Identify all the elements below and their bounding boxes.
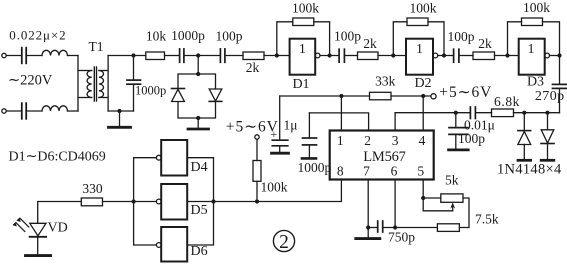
svg-text:4: 4	[419, 133, 426, 148]
wire pin1 stub	[340, 96, 342, 131]
node D1 output	[328, 53, 332, 57]
node diode D right top	[545, 111, 549, 115]
svg-text:100k: 100k	[523, 0, 550, 15]
symbol circled 2	[273, 230, 294, 251]
svg-text:1: 1	[337, 133, 344, 148]
node diode loop top	[196, 72, 200, 76]
resistor 7.5k	[437, 224, 459, 232]
wire 330 line	[38, 202, 134, 223]
wire 0.01u to 6.8k	[476, 112, 492, 114]
capacitor 100p series 2	[338, 49, 340, 62]
wire top input	[6, 55, 21, 57]
svg-text:100k: 100k	[261, 180, 288, 195]
wire bottom input	[6, 110, 21, 112]
ground diode left	[518, 159, 531, 162]
transformer T1 secondary	[99, 71, 104, 98]
capacitor 750p	[377, 221, 379, 232]
node D2 output	[442, 53, 446, 57]
wire 100p3 to 2k3	[460, 55, 474, 57]
wire pin5 stub	[422, 180, 424, 198]
ground diode right	[541, 159, 554, 162]
resistor 330	[81, 198, 102, 206]
resistor 2k 2	[358, 52, 379, 60]
wire cap to coil top	[27, 55, 42, 57]
wire D2 feedback right	[428, 22, 444, 56]
node pin6 bottom	[393, 225, 397, 229]
capacitor 1u electrolytic	[279, 96, 281, 140]
wire coil to T1 bottom	[68, 110, 79, 112]
diode 1N4148 left (pointing up)	[523, 113, 525, 131]
svg-text:33k: 33k	[375, 73, 396, 88]
terminal +5~6V left	[255, 135, 259, 139]
svg-text:2: 2	[364, 133, 371, 148]
resistor 10k	[146, 52, 165, 60]
wire secondary bottom	[108, 110, 133, 112]
wire D3 feedback right	[543, 22, 560, 56]
svg-text:100k: 100k	[410, 1, 437, 16]
wire pin8 to output line	[214, 180, 342, 202]
capacitor 1000p at pin2	[308, 113, 310, 138]
node T1 ground junction	[117, 109, 121, 113]
wire pin4 stub	[422, 96, 424, 131]
capacitor 1000p series	[179, 49, 181, 62]
svg-text:330: 330	[82, 181, 103, 196]
op-amp inverter D6	[161, 227, 187, 262]
potentiometer 5k	[441, 194, 463, 202]
svg-text:1μ: 1μ	[284, 118, 298, 133]
svg-text:7: 7	[363, 163, 370, 178]
op-amp inverter D2	[406, 39, 433, 75]
svg-text:2: 2	[279, 232, 289, 253]
wire 100p2 to 2k2	[345, 55, 358, 57]
wire wiper loop	[423, 198, 453, 211]
svg-text:+5∼6V: +5∼6V	[439, 84, 492, 101]
wire rail pin3 to 0.01u	[395, 112, 470, 114]
capacitor 100p shunt	[455, 113, 457, 128]
svg-text:5: 5	[417, 163, 424, 178]
inductor L bottom	[42, 106, 68, 111]
wire cap to coil bottom	[27, 110, 42, 112]
svg-text:5k: 5k	[445, 172, 459, 187]
wire 750p to 7.5k	[383, 227, 437, 229]
wire D4-D6 right tie	[187, 158, 213, 245]
wire pin6 stub	[394, 180, 396, 228]
svg-text:0.022μ×2: 0.022μ×2	[9, 27, 66, 42]
node left tie	[132, 199, 136, 203]
LED VD	[30, 223, 46, 236]
resistor 100k vertical	[256, 139, 258, 160]
resistor 6.8k	[492, 109, 514, 117]
svg-text:2k: 2k	[478, 36, 492, 51]
wire D3 out	[550, 55, 560, 57]
node right tie	[211, 199, 215, 203]
capacitor 100p series 3	[453, 49, 455, 62]
svg-text:270p: 270p	[535, 89, 565, 104]
op-amp inverter D5	[161, 184, 187, 220]
svg-text:D1∼D6:CD4069: D1∼D6:CD4069	[9, 150, 106, 165]
diode 1N4148 right (pointing down)	[547, 113, 549, 130]
capacitor C 0.022u bottom	[21, 103, 23, 119]
node diode D left top	[522, 111, 526, 115]
node 100k bottom	[255, 199, 259, 203]
node pin7 bottom	[366, 225, 370, 229]
resistor 100k D1	[293, 18, 314, 26]
capacitor 0.01u series	[469, 107, 471, 119]
svg-text:D2: D2	[414, 76, 431, 91]
svg-text:100p: 100p	[448, 29, 475, 44]
wire pin5 to pot	[423, 197, 441, 199]
svg-text:D6: D6	[191, 244, 208, 259]
resistor 100k D2	[407, 18, 428, 26]
node D1 input	[275, 53, 279, 57]
wire D1 feedback left	[277, 22, 293, 56]
op-amp inverter D3	[519, 39, 545, 75]
capacitor 1000p shunt at T1	[133, 56, 135, 80]
node D2 input	[391, 53, 395, 57]
wire D1 out	[320, 55, 339, 57]
wire secondary top to node	[108, 55, 146, 57]
wire right rail	[514, 112, 560, 114]
svg-text:750p: 750p	[388, 230, 415, 245]
node D3 output	[557, 53, 561, 57]
svg-text:3: 3	[392, 133, 399, 148]
svg-text:D4: D4	[191, 160, 208, 175]
svg-text:1000p: 1000p	[135, 84, 166, 98]
wire diode loop	[178, 74, 216, 118]
resistor 2k 1	[243, 52, 264, 60]
svg-text:1: 1	[299, 42, 306, 57]
wire 1000p to 100p	[185, 55, 220, 57]
node pin5	[421, 196, 425, 200]
wire pin3 stub	[394, 113, 396, 131]
wire pin7 stub	[367, 180, 369, 228]
terminal input bottom	[2, 109, 6, 113]
capacitor 270p	[559, 56, 561, 85]
LED arrows	[16, 218, 29, 231]
svg-text:10k: 10k	[146, 29, 167, 44]
svg-text:100p: 100p	[458, 131, 485, 146]
svg-text:2k: 2k	[246, 60, 260, 75]
svg-text:D1: D1	[292, 77, 309, 92]
wire diode pair stem	[197, 56, 199, 75]
wire 2k3 to D3	[495, 55, 519, 57]
node D3 input	[505, 53, 509, 57]
wire D4-D6 left tie	[134, 158, 157, 245]
wire 7.5k to pot	[459, 198, 469, 228]
svg-text:6: 6	[391, 163, 398, 178]
ground 1u	[272, 152, 289, 155]
wire D2 out	[438, 55, 453, 57]
diode VD1 left (anode down)	[172, 88, 185, 90]
svg-text:8: 8	[337, 163, 344, 178]
terminal input top	[2, 53, 6, 57]
ground LED	[26, 254, 51, 257]
wire 100p to 2k	[226, 55, 243, 57]
svg-text:100p: 100p	[334, 28, 361, 43]
svg-text:7.5k: 7.5k	[475, 212, 499, 227]
transformer T1 core	[93, 67, 95, 101]
svg-text:+5∼6V: +5∼6V	[226, 119, 279, 136]
svg-text:1: 1	[528, 42, 535, 57]
ground 1000p pin2	[302, 157, 316, 160]
svg-text:∼220V: ∼220V	[8, 73, 53, 89]
resistor 100k D3	[522, 18, 543, 26]
svg-text:D5: D5	[191, 203, 208, 218]
wire 10k to 1000p	[165, 55, 179, 57]
svg-text:D3: D3	[527, 75, 544, 90]
svg-text:VD: VD	[48, 221, 68, 236]
op-amp inverter D4	[161, 140, 187, 176]
wire D3 feedback left	[508, 22, 522, 56]
capacitor C 0.022u top	[21, 48, 23, 64]
op-amp U1 LM567	[330, 131, 434, 180]
inductor L top	[42, 50, 68, 55]
diode VD2 right (anode up)	[209, 89, 222, 101]
wire D2 feedback left	[393, 22, 407, 56]
transformer T1 primary	[77, 56, 79, 112]
capacitor 100p series 1	[219, 49, 221, 62]
ground diode pair	[197, 118, 199, 129]
wire pin2 rail	[309, 113, 368, 131]
node main line x133	[131, 53, 135, 57]
wire coil to T1 top	[68, 55, 79, 57]
ground pin7	[367, 228, 369, 239]
resistor 33k	[370, 92, 392, 100]
wire pin7 to 750p	[368, 227, 377, 229]
wire 2k to D1	[264, 55, 290, 57]
op-amp inverter D1	[290, 39, 316, 75]
svg-text:6.8k: 6.8k	[494, 94, 520, 109]
svg-text:1000p: 1000p	[298, 160, 332, 175]
pot wiper arrow	[452, 206, 454, 211]
svg-text:T1: T1	[89, 39, 104, 54]
node 100p shunt tap	[454, 111, 458, 115]
node pin4 rail	[421, 94, 425, 98]
svg-text:100p: 100p	[216, 29, 243, 44]
svg-text:1N4148×4: 1N4148×4	[497, 162, 562, 178]
svg-text:1: 1	[416, 42, 423, 57]
svg-text:100k: 100k	[292, 1, 319, 16]
resistor 2k 3	[473, 52, 495, 60]
ground T1	[119, 111, 121, 127]
terminal +5~6V right	[431, 94, 436, 99]
wire D1 feedback right	[314, 22, 330, 56]
wire 2k2 to D2	[378, 55, 406, 57]
wire 33k rail	[280, 95, 431, 97]
ground 100p shunt	[449, 148, 469, 151]
svg-text:1000p: 1000p	[171, 28, 205, 43]
node pin1 rail	[339, 94, 343, 98]
svg-text:2k: 2k	[363, 36, 377, 51]
node diode pair tap	[196, 53, 200, 57]
node diode loop bottom	[196, 116, 200, 120]
